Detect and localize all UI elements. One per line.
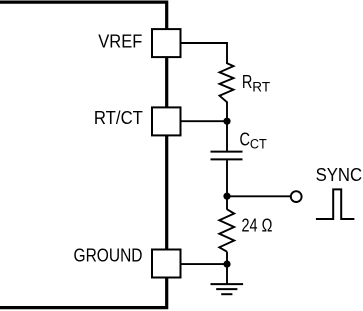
svg-text:R: R [242, 72, 253, 92]
resistor 24ohm [219, 209, 234, 251]
wire [181, 43, 227, 64]
svg-text:RT: RT [252, 79, 270, 94]
wire [227, 195, 291, 197]
label C_CT [240, 130, 267, 152]
wire [226, 252, 228, 264]
wire [182, 263, 228, 265]
wire [226, 160, 228, 196]
svg-text:CT: CT [250, 137, 267, 152]
svg-text:C: C [240, 130, 251, 150]
pin RT/CT box [152, 107, 181, 135]
node ground junction [223, 261, 230, 268]
SYNC pulse waveform [316, 189, 355, 219]
svg-text:24 Ω: 24 Ω [242, 216, 273, 236]
op-amp U1 [0, 2, 167, 308]
node RT/CT junction [223, 118, 230, 125]
wire [226, 102, 228, 122]
ground [211, 284, 244, 294]
resistor R_RT [220, 63, 234, 102]
svg-text:VREF: VREF [98, 32, 142, 52]
wire [182, 120, 228, 122]
capacitor C_CT [211, 152, 243, 160]
label R_RT [242, 72, 270, 95]
wire [226, 196, 228, 209]
node SYNC junction [223, 193, 230, 200]
pin VREF box [152, 29, 181, 57]
wire [226, 264, 228, 284]
wire [226, 121, 228, 151]
pin GROUND box [152, 250, 181, 278]
svg-text:GROUND: GROUND [74, 246, 143, 266]
SYNC terminal [291, 191, 302, 202]
svg-text:RT/CT: RT/CT [94, 108, 143, 128]
svg-text:SYNC: SYNC [316, 165, 363, 185]
